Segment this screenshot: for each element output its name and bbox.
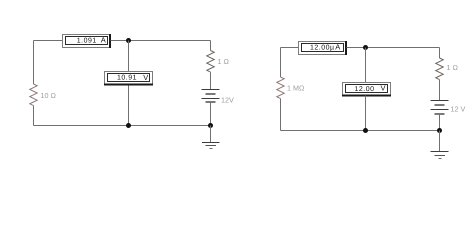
- wire right vertical between resistor and battery: [210, 72, 212, 89]
- svg-text:1 Ω: 1 Ω: [447, 63, 459, 72]
- svg-text:12.00: 12.00: [354, 86, 374, 93]
- junction node top middle: [363, 45, 368, 50]
- junction node bottom right: [208, 123, 213, 128]
- svg-text:12V: 12V: [221, 95, 234, 104]
- wire top-left horizontal to ammeter: [281, 47, 299, 49]
- ammeter reading 1.091 A: [63, 34, 111, 48]
- wire left vertical upper: [280, 48, 282, 78]
- svg-text:A: A: [101, 36, 106, 45]
- resistor 1 ohm: [207, 51, 230, 73]
- wire bottom horizontal: [34, 125, 211, 127]
- junction node bottom right: [437, 128, 442, 133]
- wire right vertical upper: [439, 48, 441, 59]
- wire left vertical lower: [33, 106, 35, 126]
- wire right vertical between resistor and battery: [439, 80, 441, 101]
- ground: [202, 143, 220, 149]
- svg-text:1 Ω: 1 Ω: [218, 57, 230, 66]
- svg-text:V: V: [380, 84, 385, 93]
- resistor 1 ohm (right): [436, 58, 459, 80]
- wire ground stem: [210, 126, 212, 143]
- wire ground stem: [439, 131, 441, 152]
- svg-text:12.00µ: 12.00µ: [310, 44, 335, 51]
- svg-text:10.91: 10.91: [117, 75, 137, 82]
- battery 12 V (right): [431, 101, 466, 115]
- svg-text:A: A: [335, 43, 340, 52]
- resistor 1 Mohm: [277, 77, 305, 99]
- svg-text:V: V: [143, 73, 148, 82]
- wire top horizontal ammeter to right corner: [111, 40, 211, 42]
- battery 12V: [202, 90, 234, 105]
- wire top horizontal ammeter to right corner: [347, 47, 440, 49]
- ammeter reading 12.00u A: [299, 41, 347, 55]
- resistor 10 ohm: [30, 84, 57, 106]
- wire top-left horizontal to ammeter: [34, 40, 63, 42]
- svg-text:1 MΩ: 1 MΩ: [287, 84, 305, 93]
- wire right vertical upper: [210, 41, 212, 51]
- wire middle branch lower: [128, 86, 130, 126]
- voltmeter reading 10.91 V: [104, 72, 153, 85]
- svg-text:1.091: 1.091: [77, 37, 97, 44]
- wire battery to bottom junction: [439, 114, 441, 131]
- svg-text:12 V: 12 V: [451, 104, 466, 113]
- ground (right): [431, 152, 449, 159]
- wire left vertical lower: [280, 99, 282, 131]
- junction node top middle: [126, 38, 131, 43]
- wire middle branch lower: [365, 96, 367, 131]
- wire left vertical upper: [33, 41, 35, 85]
- svg-text:10 Ω: 10 Ω: [41, 91, 57, 100]
- voltmeter reading 12.00 V: [342, 83, 391, 96]
- wire bottom horizontal: [281, 130, 440, 132]
- junction node bottom middle: [126, 123, 131, 128]
- wire middle branch upper: [128, 41, 130, 72]
- wire battery to bottom junction: [210, 102, 212, 126]
- wire middle branch upper: [365, 48, 367, 83]
- junction node bottom middle: [363, 128, 368, 133]
